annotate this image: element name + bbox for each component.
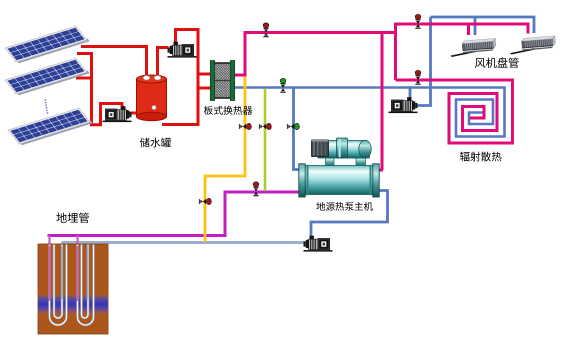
wire grey riser into borehole 2	[86, 243, 88, 300]
valve on yellow line	[239, 123, 251, 129]
wire violet downcomer borehole 1	[48, 236, 50, 303]
label ban shi huan re qi (plate heat exchanger)	[204, 106, 252, 115]
wire yellow bypass line	[205, 76, 245, 242]
wire red stub to exchanger hot outlet	[198, 87, 212, 90]
solar collector panel 3	[8, 108, 93, 146]
fan coil unit FC2	[510, 36, 556, 55]
dotted ellipsis between panels	[44, 99, 48, 114]
valve on blue drop line	[287, 123, 299, 129]
wire red pump P2 outlet to tank	[129, 112, 138, 115]
pump P3 heating circulator	[389, 97, 418, 113]
valve on yellow bypass drop	[199, 198, 211, 204]
buried ground loop field (di mai guan)	[38, 244, 108, 334]
ground-source heat pump main unit (di yuan re beng zhu ji)	[299, 138, 379, 197]
valve on blue return line	[280, 78, 286, 93]
label di yuan re beng zhu ji (GSHP main unit)	[316, 202, 372, 211]
valve on violet ground supply	[253, 182, 259, 197]
wire violet downcomer borehole 2	[76, 236, 78, 303]
wire blue from heat-pump right outlet down to ground-loop pump P4	[311, 191, 388, 238]
wire blue drop to fan coil FC1	[474, 17, 477, 35]
wire pink radiant-floor spiral (supply coil)	[396, 80, 513, 143]
pump P4 ground loop circulator	[304, 236, 333, 252]
fan coil unit FC1 (feng ji pan guan)	[451, 38, 497, 57]
valve on green line	[259, 123, 271, 129]
wire blue fan-coil return header	[431, 17, 535, 33]
valve on pink fan-coil header	[415, 14, 421, 28]
label fu she san re (radiant heating)	[460, 152, 502, 162]
valve on pink radiant supply	[415, 70, 421, 85]
solar collector panel 1	[5, 26, 90, 64]
wire pink riser to radiant floor	[394, 33, 397, 81]
borehole 1 outer U-tube	[50, 245, 67, 326]
wire blue branch down into pump P3	[409, 88, 412, 101]
wire blue drop to heat-pump left inlet	[294, 88, 302, 170]
wire violet ground-loop supply from heat-pump left	[48, 192, 302, 236]
wire red stub to exchanger hot inlet	[198, 73, 212, 76]
wire grey riser into borehole 1	[61, 243, 63, 300]
wire pink drop to heat-pump right inlet	[381, 33, 384, 171]
storage tank (chu shui guan)	[137, 75, 167, 121]
wire pink supply from plate exchanger	[234, 33, 396, 76]
solar collector panel 2	[5, 58, 90, 96]
wire grey ground-loop line to pump P4	[62, 241, 306, 244]
wire pink fan-coil supply header	[396, 24, 529, 34]
borehole 2 outer U-tube	[78, 245, 94, 326]
label chu shui guan (storage tank)	[140, 138, 171, 148]
wire blue return from plate exchanger into radiant-floor spiral (return coil)	[234, 88, 505, 137]
valve on pink supply header	[263, 23, 269, 37]
borehole 2 inner U-tube	[82, 245, 89, 319]
wire green bypass line	[264, 89, 267, 192]
plate heat exchanger (ban shi huan re qi)	[210, 61, 234, 101]
wire red solar array chain down to pump P2	[77, 54, 122, 125]
pump P1 solar loop circulator	[168, 42, 197, 58]
wire red stub to panel 2	[76, 77, 92, 80]
wire pink drop to fan coil FC1	[467, 24, 470, 35]
wire red tank outlet riser to pump P1	[158, 48, 169, 79]
wire pink stub into heat-pump right	[377, 169, 383, 172]
pump P2 solar tank circulator	[103, 106, 132, 122]
wire red solar panel 1 to tank port	[81, 47, 147, 79]
wire blue riser from heating pump P3 to fan-coil header	[416, 17, 431, 106]
borehole 1 inner U-tube	[54, 245, 62, 319]
label di mai guan (buried pipes)	[56, 213, 89, 223]
label feng ji pan guan (fan coils)	[475, 57, 519, 67]
wire red pump P1 to plate exchanger riser and tank bottom return	[162, 30, 198, 125]
